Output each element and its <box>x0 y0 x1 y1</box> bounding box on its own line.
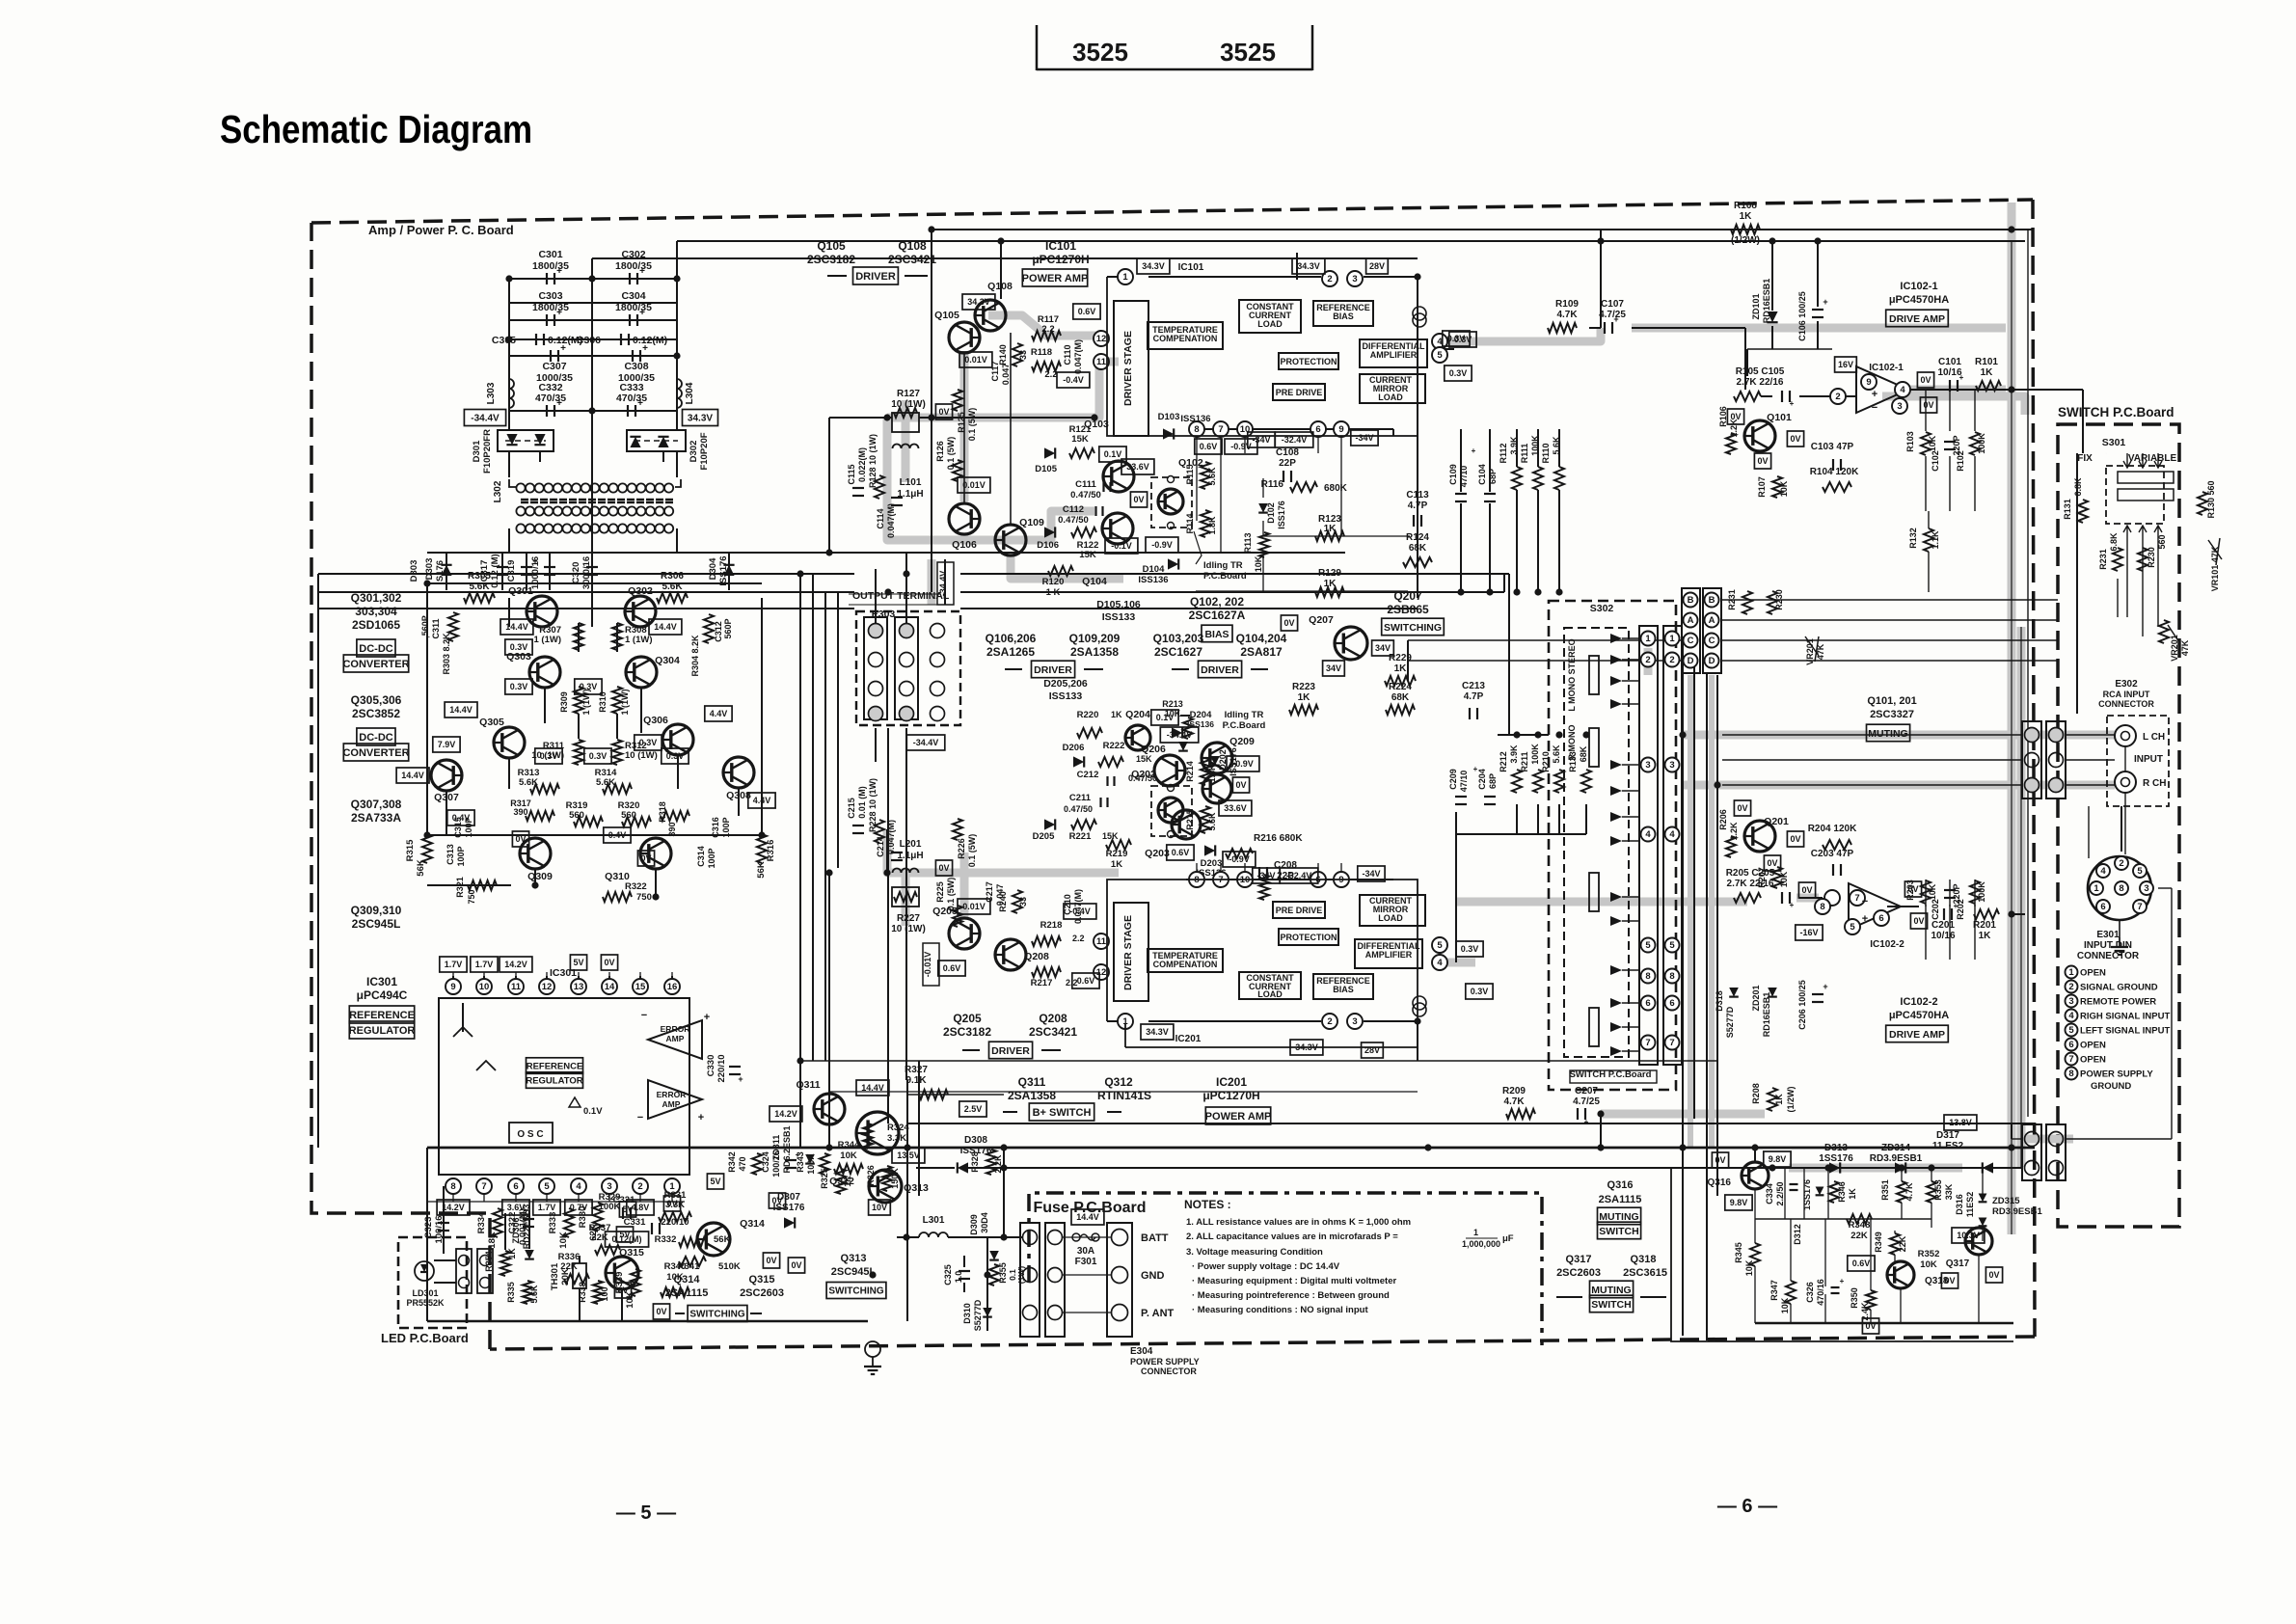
svg-text:Q207: Q207 <box>1393 589 1422 603</box>
svg-text:0.047: 0.047 <box>995 884 1005 907</box>
svg-text:510K: 510K <box>718 1261 741 1272</box>
svg-text:10K: 10K <box>1165 709 1181 718</box>
svg-text:0V: 0V <box>640 853 651 863</box>
svg-text:R223: R223 <box>1292 682 1315 692</box>
svg-text:R304 8.2K: R304 8.2K <box>690 635 700 677</box>
svg-text:Q102, 202: Q102, 202 <box>1190 595 1244 609</box>
svg-text:4.7K: 4.7K <box>1556 310 1578 320</box>
svg-text:IC102-1: IC102-1 <box>1869 363 1904 373</box>
svg-text:6.8K: 6.8K <box>2109 532 2119 552</box>
svg-text:33: 33 <box>1018 897 1028 907</box>
svg-text:R127: R127 <box>897 389 920 399</box>
svg-text:30A: 30A <box>1077 1246 1094 1257</box>
svg-text:C213: C213 <box>1462 681 1485 691</box>
svg-text:BATT: BATT <box>1141 1232 1169 1244</box>
svg-text:RD6.2ESB1: RD6.2ESB1 <box>782 1125 792 1173</box>
svg-text:470/16: 470/16 <box>1816 1279 1825 1306</box>
svg-text:2SC3182: 2SC3182 <box>807 253 855 266</box>
svg-text:10K: 10K <box>1928 435 1937 451</box>
svg-text:R104 120K: R104 120K <box>1810 467 1859 477</box>
svg-text:-34.4V: -34.4V <box>913 738 939 747</box>
svg-text:+: + <box>1790 901 1795 909</box>
svg-text:5V: 5V <box>710 1177 720 1186</box>
svg-text:C214: C214 <box>876 836 885 857</box>
svg-text:C212: C212 <box>1077 770 1099 780</box>
svg-text:100K: 100K <box>1530 744 1540 765</box>
svg-text:Q309,310: Q309,310 <box>351 904 402 917</box>
svg-text:D308: D308 <box>964 1135 987 1146</box>
svg-text:L302: L302 <box>493 480 503 502</box>
svg-text:0.12(M): 0.12(M) <box>633 335 667 346</box>
svg-text:22K: 22K <box>1898 1235 1907 1252</box>
svg-text:SWITCHING: SWITCHING <box>1384 622 1442 634</box>
svg-text:560P: 560P <box>723 618 733 638</box>
svg-text:1K: 1K <box>1740 211 1753 222</box>
svg-text:C211: C211 <box>1069 793 1092 803</box>
svg-text:2SA1358: 2SA1358 <box>1070 645 1119 659</box>
svg-text:2: 2 <box>2119 858 2123 869</box>
svg-text:Amp / Power P. C. Board: Amp / Power P. C. Board <box>368 223 514 237</box>
svg-text:5.6K: 5.6K <box>1552 744 1561 764</box>
svg-text:7: 7 <box>481 1181 486 1192</box>
svg-text:Q201: Q201 <box>1764 816 1789 827</box>
svg-text:14.4V: 14.4V <box>654 622 677 632</box>
svg-text:8: 8 <box>1669 971 1674 982</box>
svg-text:390: 390 <box>513 807 527 817</box>
svg-text:0.1 (5W): 0.1 (5W) <box>946 878 956 911</box>
svg-text:— 5 —: — 5 — <box>616 1502 676 1524</box>
svg-text:0V: 0V <box>938 407 949 417</box>
svg-text:5V: 5V <box>619 1230 630 1239</box>
svg-text:D318: D318 <box>1715 990 1724 1012</box>
svg-text:0.1V: 0.1V <box>1104 449 1122 459</box>
svg-text:ISS133: ISS133 <box>1102 611 1136 623</box>
svg-text:R215: R215 <box>1185 809 1195 830</box>
svg-text:C326: C326 <box>1805 1282 1815 1303</box>
svg-text:R327: R327 <box>905 1065 928 1075</box>
svg-text:0V: 0V <box>1737 803 1747 813</box>
svg-text:ERROR: ERROR <box>657 1090 687 1099</box>
svg-text:Q309: Q309 <box>527 871 553 882</box>
svg-text:C110: C110 <box>1063 344 1072 365</box>
svg-text:10V: 10V <box>872 1203 887 1212</box>
svg-text:0.47/50: 0.47/50 <box>1064 804 1093 814</box>
svg-text:MUTING: MUTING <box>1599 1211 1638 1223</box>
svg-text:C103 47P: C103 47P <box>1811 442 1854 452</box>
svg-text:R212: R212 <box>1499 751 1508 772</box>
svg-text:· Measuring conditions :: · Measuring conditions : NO signal input <box>1192 1305 1368 1315</box>
svg-text:1.0: 1.0 <box>954 1271 963 1284</box>
svg-text:0.022(M): 0.022(M) <box>857 447 867 482</box>
svg-text:1 (1W): 1 (1W) <box>625 635 653 645</box>
svg-text:2.2: 2.2 <box>1044 369 1057 380</box>
svg-text:ZD315: ZD315 <box>1992 1196 2020 1206</box>
svg-text:0.3V: 0.3V <box>589 751 608 761</box>
svg-text:R112: R112 <box>1499 443 1508 463</box>
svg-text:18K: 18K <box>487 1232 498 1249</box>
svg-text:470/35: 470/35 <box>535 392 566 404</box>
svg-text:CONVERTER: CONVERTER <box>342 747 409 759</box>
svg-text:R344: R344 <box>838 1140 860 1150</box>
svg-text:2SC945L: 2SC945L <box>831 1266 877 1278</box>
svg-text:2SC945L: 2SC945L <box>352 917 401 931</box>
svg-text:ISS176: ISS176 <box>718 555 729 585</box>
svg-text:4.7K: 4.7K <box>1503 1096 1525 1107</box>
svg-text:R342: R342 <box>727 1151 737 1173</box>
svg-text:L304: L304 <box>685 382 695 404</box>
svg-text:6: 6 <box>513 1181 518 1192</box>
svg-text:15K: 15K <box>1079 550 1096 560</box>
svg-text:R309: R309 <box>559 691 569 713</box>
svg-text:R224: R224 <box>1389 682 1412 692</box>
svg-text:Q317: Q317 <box>1946 1259 1970 1269</box>
svg-text:C313: C313 <box>446 844 455 865</box>
svg-text:3: 3 <box>1669 760 1674 771</box>
svg-text:-34.4V: -34.4V <box>471 414 500 424</box>
svg-text:6: 6 <box>1878 913 1883 924</box>
svg-text:1: 1 <box>1122 272 1128 283</box>
svg-text:1.8K: 1.8K <box>1207 764 1217 783</box>
svg-text:−: − <box>1862 896 1868 907</box>
svg-text:1K: 1K <box>1774 1094 1784 1105</box>
svg-text:68K: 68K <box>1579 745 1588 762</box>
svg-text:MUTING: MUTING <box>1868 728 1907 740</box>
svg-text:14.4V: 14.4V <box>1076 1212 1099 1222</box>
svg-text:S301: S301 <box>2102 437 2126 448</box>
svg-text:Q108: Q108 <box>987 281 1013 292</box>
svg-text:0.6V: 0.6V <box>1200 442 1218 451</box>
svg-text:-34.4V: -34.4V <box>938 571 948 597</box>
svg-text:R115: R115 <box>1185 464 1195 484</box>
svg-text:14: 14 <box>605 982 615 992</box>
svg-text:PRE DRIVE: PRE DRIVE <box>1276 388 1323 397</box>
svg-text:AMPLIFIER: AMPLIFIER <box>1370 350 1418 360</box>
svg-text:22P: 22P <box>1279 458 1296 469</box>
svg-text:C: C <box>1688 636 1694 646</box>
svg-text:D303: D303 <box>409 560 419 582</box>
svg-text:100K: 100K <box>1977 433 1986 454</box>
svg-text:C312: C312 <box>714 621 723 642</box>
svg-text:REFERENCE: REFERENCE <box>349 1010 415 1021</box>
svg-text:PROTECTION: PROTECTION <box>1280 933 1337 942</box>
svg-text:DRIVER STAGE: DRIVER STAGE <box>1122 331 1134 406</box>
svg-text:11: 11 <box>1096 936 1107 947</box>
svg-text:2SC3327: 2SC3327 <box>1870 709 1914 720</box>
svg-text:5.6K: 5.6K <box>1207 467 1217 486</box>
svg-text:D105,106: D105,106 <box>1096 599 1141 610</box>
svg-text:Q318: Q318 <box>1631 1254 1657 1265</box>
svg-text:0.3V: 0.3V <box>1461 944 1479 954</box>
svg-text:+: + <box>698 1112 704 1123</box>
svg-text:Q301: Q301 <box>508 585 533 597</box>
svg-text:4: 4 <box>2100 866 2106 877</box>
svg-text:C109: C109 <box>1448 464 1458 485</box>
svg-text:5: 5 <box>2068 1025 2074 1036</box>
svg-text:0.3V: 0.3V <box>510 642 528 652</box>
svg-text:REMOTE POWER: REMOTE POWER <box>2080 997 2156 1008</box>
svg-text:0V: 0V <box>766 1256 776 1265</box>
svg-text:10K: 10K <box>1779 871 1789 887</box>
svg-text:0.3V: 0.3V <box>580 682 598 691</box>
svg-text:C113: C113 <box>1406 490 1429 501</box>
svg-text:R321: R321 <box>455 877 465 898</box>
svg-text:R220: R220 <box>1077 710 1099 720</box>
svg-text:−: − <box>1872 402 1877 414</box>
svg-text:10K: 10K <box>840 1150 857 1161</box>
svg-text:R MONO: R MONO <box>1567 725 1577 761</box>
svg-text:0.1 (5W): 0.1 (5W) <box>967 408 977 442</box>
svg-text:R113: R113 <box>1243 532 1253 553</box>
svg-text:OPEN: OPEN <box>2080 1055 2106 1066</box>
svg-text:5.6K: 5.6K <box>519 777 538 788</box>
svg-text:C101: C101 <box>1938 357 1961 367</box>
svg-text:B: B <box>1688 595 1694 606</box>
svg-text:0V: 0V <box>1283 618 1294 628</box>
svg-text:-0.9V: -0.9V <box>1230 442 1252 451</box>
svg-text:ISS136: ISS136 <box>1180 414 1210 424</box>
svg-text:2SA1115: 2SA1115 <box>1599 1194 1642 1205</box>
svg-text:0V: 0V <box>1913 916 1924 926</box>
svg-text:1 (1W): 1 (1W) <box>534 635 562 645</box>
svg-text:1K: 1K <box>1394 663 1408 674</box>
svg-text:7: 7 <box>1854 893 1859 904</box>
svg-text:DRIVER STAGE: DRIVER STAGE <box>1122 915 1134 990</box>
svg-text:680K: 680K <box>1324 483 1348 494</box>
svg-text:REGULATOR: REGULATOR <box>349 1025 416 1037</box>
svg-text:Q315: Q315 <box>619 1247 644 1259</box>
svg-text:4: 4 <box>1669 829 1675 840</box>
svg-text:R201: R201 <box>1973 920 1996 931</box>
svg-text:L301: L301 <box>923 1215 945 1226</box>
svg-text:2SA1358: 2SA1358 <box>1008 1089 1056 1102</box>
svg-text:560: 560 <box>621 810 636 821</box>
svg-text:2.5V: 2.5V <box>964 1104 983 1114</box>
svg-text:0V: 0V <box>938 863 949 873</box>
svg-text:C311: C311 <box>431 618 441 638</box>
svg-text:R315: R315 <box>405 839 416 861</box>
svg-text:R353: R353 <box>1933 1179 1943 1201</box>
svg-text:S302: S302 <box>1590 603 1614 614</box>
svg-text:D302: D302 <box>689 441 699 463</box>
svg-text:Schematic Diagram: Schematic Diagram <box>220 107 532 151</box>
svg-text:2: 2 <box>1645 655 1650 665</box>
svg-text:3. Voltage measuring Condi: 3. Voltage measuring Condition <box>1186 1247 1323 1258</box>
svg-text:5.6K: 5.6K <box>1207 812 1217 831</box>
svg-text:5: 5 <box>1850 922 1855 933</box>
svg-text:C111: C111 <box>1075 479 1096 490</box>
svg-text:Q301,302: Q301,302 <box>351 591 402 605</box>
svg-text:P.C.Board: P.C.Board <box>1223 720 1266 731</box>
svg-text:0V: 0V <box>1790 834 1800 844</box>
svg-text:D303: D303 <box>424 558 435 581</box>
svg-text:0.1V: 0.1V <box>583 1106 603 1117</box>
svg-text:9.8V: 9.8V <box>1769 1154 1787 1164</box>
svg-text:Q109,209: Q109,209 <box>1069 632 1121 645</box>
svg-text:D: D <box>1688 656 1694 666</box>
svg-text:R209: R209 <box>1502 1086 1526 1096</box>
svg-text:D106: D106 <box>1037 540 1059 551</box>
svg-text:0.047: 0.047 <box>1001 364 1011 386</box>
svg-text:9.8V: 9.8V <box>1730 1198 1748 1207</box>
svg-text:1 (1W): 1 (1W) <box>620 689 630 715</box>
svg-text:· Measuring equipment :: · Measuring equipment : Digital multi vo… <box>1192 1276 1396 1286</box>
svg-text:R107: R107 <box>1757 476 1767 498</box>
svg-text:R351: R351 <box>1880 1179 1890 1201</box>
svg-text:2: 2 <box>1669 655 1674 665</box>
svg-text:S5277D: S5277D <box>1725 1006 1735 1038</box>
svg-text:7: 7 <box>1218 424 1223 435</box>
svg-text:5V: 5V <box>573 958 583 967</box>
svg-text:0.4V: 0.4V <box>452 813 471 823</box>
svg-text:2.2: 2.2 <box>1041 324 1054 335</box>
svg-text:16V: 16V <box>1838 360 1853 369</box>
svg-text:μPC1270H: μPC1270H <box>1202 1089 1259 1102</box>
svg-text:0.6V: 0.6V <box>1172 848 1190 857</box>
svg-text:D301: D301 <box>472 440 482 462</box>
svg-text:560: 560 <box>569 810 584 821</box>
svg-text:P. ANT: P. ANT <box>1141 1308 1175 1319</box>
svg-text:REFERENCE: REFERENCE <box>527 1061 583 1071</box>
svg-text:Q209: Q209 <box>1229 736 1255 747</box>
svg-text:LOAD: LOAD <box>1257 319 1283 329</box>
svg-text:R214: R214 <box>1185 761 1195 782</box>
svg-text:1K: 1K <box>1324 524 1337 534</box>
svg-text:+: + <box>704 1012 710 1023</box>
svg-text:14.2V: 14.2V <box>442 1203 465 1212</box>
svg-text:R341: R341 <box>678 1261 700 1272</box>
svg-text:D304: D304 <box>708 557 718 580</box>
svg-text:IC101: IC101 <box>1045 239 1076 253</box>
svg-text:0V: 0V <box>1988 1270 1999 1280</box>
svg-text:R227: R227 <box>897 913 920 924</box>
svg-text:7: 7 <box>2068 1054 2073 1065</box>
svg-text:1800/35: 1800/35 <box>615 302 652 313</box>
svg-text:VR101 47K: VR101 47K <box>2210 546 2220 591</box>
svg-text:D312: D312 <box>1793 1224 1802 1245</box>
svg-text:C203 47P: C203 47P <box>1811 849 1854 859</box>
svg-text:C112: C112 <box>1063 504 1084 515</box>
svg-text:7: 7 <box>2137 902 2142 912</box>
svg-text:3: 3 <box>2144 883 2148 894</box>
svg-text:F301: F301 <box>1075 1257 1097 1267</box>
svg-text:BIAS: BIAS <box>1333 985 1354 994</box>
svg-text:1: 1 <box>1645 634 1651 644</box>
svg-text:+: + <box>685 1214 689 1223</box>
svg-text:D309: D309 <box>969 1214 979 1235</box>
svg-text:1 (1W): 1 (1W) <box>581 689 591 715</box>
svg-text:PRE DRIVE: PRE DRIVE <box>1276 906 1323 915</box>
svg-text:2SC2603: 2SC2603 <box>740 1287 784 1299</box>
svg-text:10K: 10K <box>1780 1297 1790 1313</box>
svg-text:REGULATOR: REGULATOR <box>526 1075 582 1086</box>
svg-text:C301: C301 <box>538 249 562 260</box>
svg-text:Q303: Q303 <box>506 651 531 663</box>
svg-text:R332: R332 <box>655 1234 677 1245</box>
svg-text:C303: C303 <box>538 290 562 302</box>
svg-text:+: + <box>1823 297 1827 307</box>
svg-text:11: 11 <box>511 982 522 992</box>
svg-text:7: 7 <box>1669 1038 1674 1048</box>
svg-text:D205,206: D205,206 <box>1043 678 1088 690</box>
svg-text:ISS133: ISS133 <box>1049 690 1083 702</box>
svg-text:C323: C323 <box>423 1217 434 1239</box>
svg-text:−: − <box>637 1112 643 1123</box>
svg-text:R114: R114 <box>1185 513 1195 533</box>
svg-text:560: 560 <box>2157 534 2167 549</box>
svg-text:0.3V: 0.3V <box>1449 368 1468 378</box>
svg-text:D205: D205 <box>1033 831 1055 842</box>
svg-text:R345: R345 <box>1734 1242 1743 1263</box>
svg-text:4: 4 <box>1437 958 1443 968</box>
svg-text:Q202: Q202 <box>1131 769 1156 780</box>
svg-text:0.47/50: 0.47/50 <box>1070 490 1101 501</box>
svg-text:Q316: Q316 <box>1708 1177 1732 1188</box>
svg-text:L303: L303 <box>486 382 497 404</box>
svg-text:0.01V: 0.01V <box>962 480 986 490</box>
svg-text:0.47/50: 0.47/50 <box>1058 515 1089 526</box>
svg-text:30D4: 30D4 <box>980 1212 989 1233</box>
svg-text:Q304: Q304 <box>655 655 680 666</box>
svg-text:+: + <box>642 343 648 354</box>
svg-text:100P: 100P <box>456 846 466 866</box>
svg-text:34.3V: 34.3V <box>967 297 990 307</box>
svg-text:Q305: Q305 <box>479 717 504 728</box>
svg-text:5: 5 <box>1669 940 1675 951</box>
svg-text:15: 15 <box>635 982 646 992</box>
svg-text:14.4V: 14.4V <box>401 771 424 780</box>
svg-text:3.9K: 3.9K <box>1509 744 1519 764</box>
svg-text:4.7/25: 4.7/25 <box>1599 310 1626 320</box>
svg-text:47K: 47K <box>1816 643 1825 660</box>
svg-text:5: 5 <box>1437 350 1443 361</box>
svg-text:DRIVER: DRIVER <box>1034 664 1072 676</box>
svg-text:R CH: R CH <box>2143 778 2166 789</box>
svg-text:LOAD: LOAD <box>1257 989 1283 999</box>
svg-text:Q104,204: Q104,204 <box>1236 632 1287 645</box>
svg-text:0.047(M): 0.047(M) <box>1073 339 1083 374</box>
svg-text:Idling TR: Idling TR <box>1225 710 1264 720</box>
svg-text:R213: R213 <box>1162 699 1183 709</box>
svg-text:POWER AMP: POWER AMP <box>1205 1111 1272 1123</box>
svg-text:RD3.9ESB1: RD3.9ESB1 <box>1870 1153 1923 1164</box>
svg-text:2: 2 <box>1327 274 1332 284</box>
svg-text:10/16: 10/16 <box>1931 931 1955 941</box>
svg-text:0V: 0V <box>1235 780 1246 790</box>
svg-text:DRIVER: DRIVER <box>991 1045 1030 1057</box>
svg-text:+: + <box>1823 982 1827 991</box>
svg-text:R305: R305 <box>468 571 491 582</box>
svg-text:R222: R222 <box>1103 741 1125 751</box>
svg-text:2SC3421: 2SC3421 <box>1029 1025 1077 1039</box>
svg-text:COMPENATION: COMPENATION <box>1153 334 1218 343</box>
svg-text:2SC3421: 2SC3421 <box>888 253 936 266</box>
svg-text:303,304: 303,304 <box>355 605 397 618</box>
svg-text:ZD306: ZD306 <box>511 1217 521 1243</box>
svg-text:ISS176: ISS176 <box>1277 501 1286 529</box>
svg-text:MUTING: MUTING <box>1591 1285 1631 1296</box>
svg-text:LOAD: LOAD <box>1378 913 1403 923</box>
svg-text:68P: 68P <box>1488 773 1498 789</box>
svg-text:6.8K: 6.8K <box>2073 477 2083 497</box>
svg-text:15K: 15K <box>1071 434 1089 445</box>
svg-text:C209: C209 <box>1448 769 1458 790</box>
svg-text:P.C.Board: P.C.Board <box>1203 571 1247 582</box>
svg-text:9.1K: 9.1K <box>905 1075 927 1086</box>
svg-text:1K: 1K <box>507 1248 517 1259</box>
svg-text:5: 5 <box>2137 866 2143 877</box>
svg-text:6: 6 <box>1315 424 1320 435</box>
svg-text:0.047(M): 0.047(M) <box>886 503 896 538</box>
